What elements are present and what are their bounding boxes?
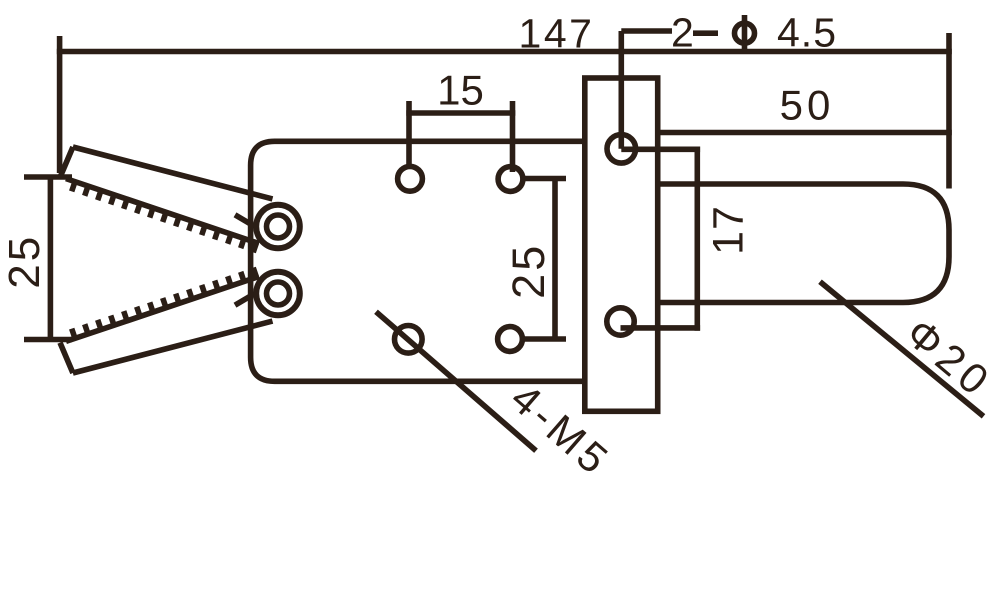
label phi20 leader (820, 282, 984, 417)
svg-text:2: 2 (671, 10, 694, 56)
dimension 25 left tick top (24, 174, 72, 180)
label 2-phi4.5 dash (693, 30, 718, 36)
bracket bottom edge / hole stub bottom (621, 325, 701, 331)
mounting hole top-right (498, 167, 523, 192)
dimension 15 extension line left (406, 101, 412, 166)
svg-text:17: 17 (705, 205, 753, 255)
mounting hole bottom-right (498, 327, 523, 352)
dimension 25 middle line (552, 179, 558, 340)
dimension 25 left tick bottom (24, 337, 72, 343)
lower jaw connector to ring (235, 294, 255, 306)
label 2-phi4.5 phi symbol (735, 23, 755, 43)
upper jaw top edge (73, 147, 273, 199)
svg-text:4.5: 4.5 (777, 10, 837, 56)
dimension 15 extension line right (510, 101, 516, 172)
dimension 15 line (406, 110, 515, 116)
pivot ring lower outer (256, 272, 300, 316)
svg-text:25: 25 (503, 243, 554, 299)
flange hole top (607, 135, 636, 164)
lower jaw serrated edge (66, 277, 259, 342)
label 2-phi4.5 leader horizontal (621, 28, 672, 34)
upper jaw teeth (72, 182, 257, 253)
svg-text:50: 50 (780, 81, 835, 128)
dimension 25 middle tick bottom (521, 336, 566, 342)
pivot ring upper outer (256, 205, 300, 249)
dimension 147 extension line left (57, 36, 63, 173)
pivot ring lower inner (267, 282, 290, 305)
cylinder body (658, 184, 949, 303)
label 2-phi4.5 leader vertical (618, 31, 624, 149)
lower jaw teeth (72, 268, 257, 339)
mounting hole top-left (398, 166, 423, 191)
flange hole bottom (607, 308, 634, 335)
dimension 147 line (57, 49, 952, 55)
upper jaw serrated edge (66, 179, 259, 244)
upper jaw tip edge (60, 147, 73, 177)
lower jaw tip edge (60, 343, 73, 373)
dimension 50 line (655, 130, 952, 136)
dimension 25 left line (48, 177, 54, 340)
svg-text:15: 15 (437, 67, 484, 114)
pivot ring upper inner (267, 215, 290, 238)
upper jaw connector to ring (235, 215, 255, 227)
main body rounded block (251, 141, 585, 381)
bracket right edge (694, 147, 700, 331)
label 4-M5 leader (376, 312, 536, 451)
svg-text:147: 147 (519, 11, 595, 57)
bracket top edge / hole stub top (621, 147, 700, 153)
mounting hole bottom-left (395, 326, 423, 354)
dimension 147 extension line right (946, 33, 952, 189)
lower jaw bottom edge (73, 321, 273, 373)
flange plate (585, 78, 658, 411)
dimension 25 middle tick top (521, 176, 566, 182)
svg-text:4-M5: 4-M5 (502, 374, 620, 485)
svg-text:25: 25 (0, 234, 49, 289)
